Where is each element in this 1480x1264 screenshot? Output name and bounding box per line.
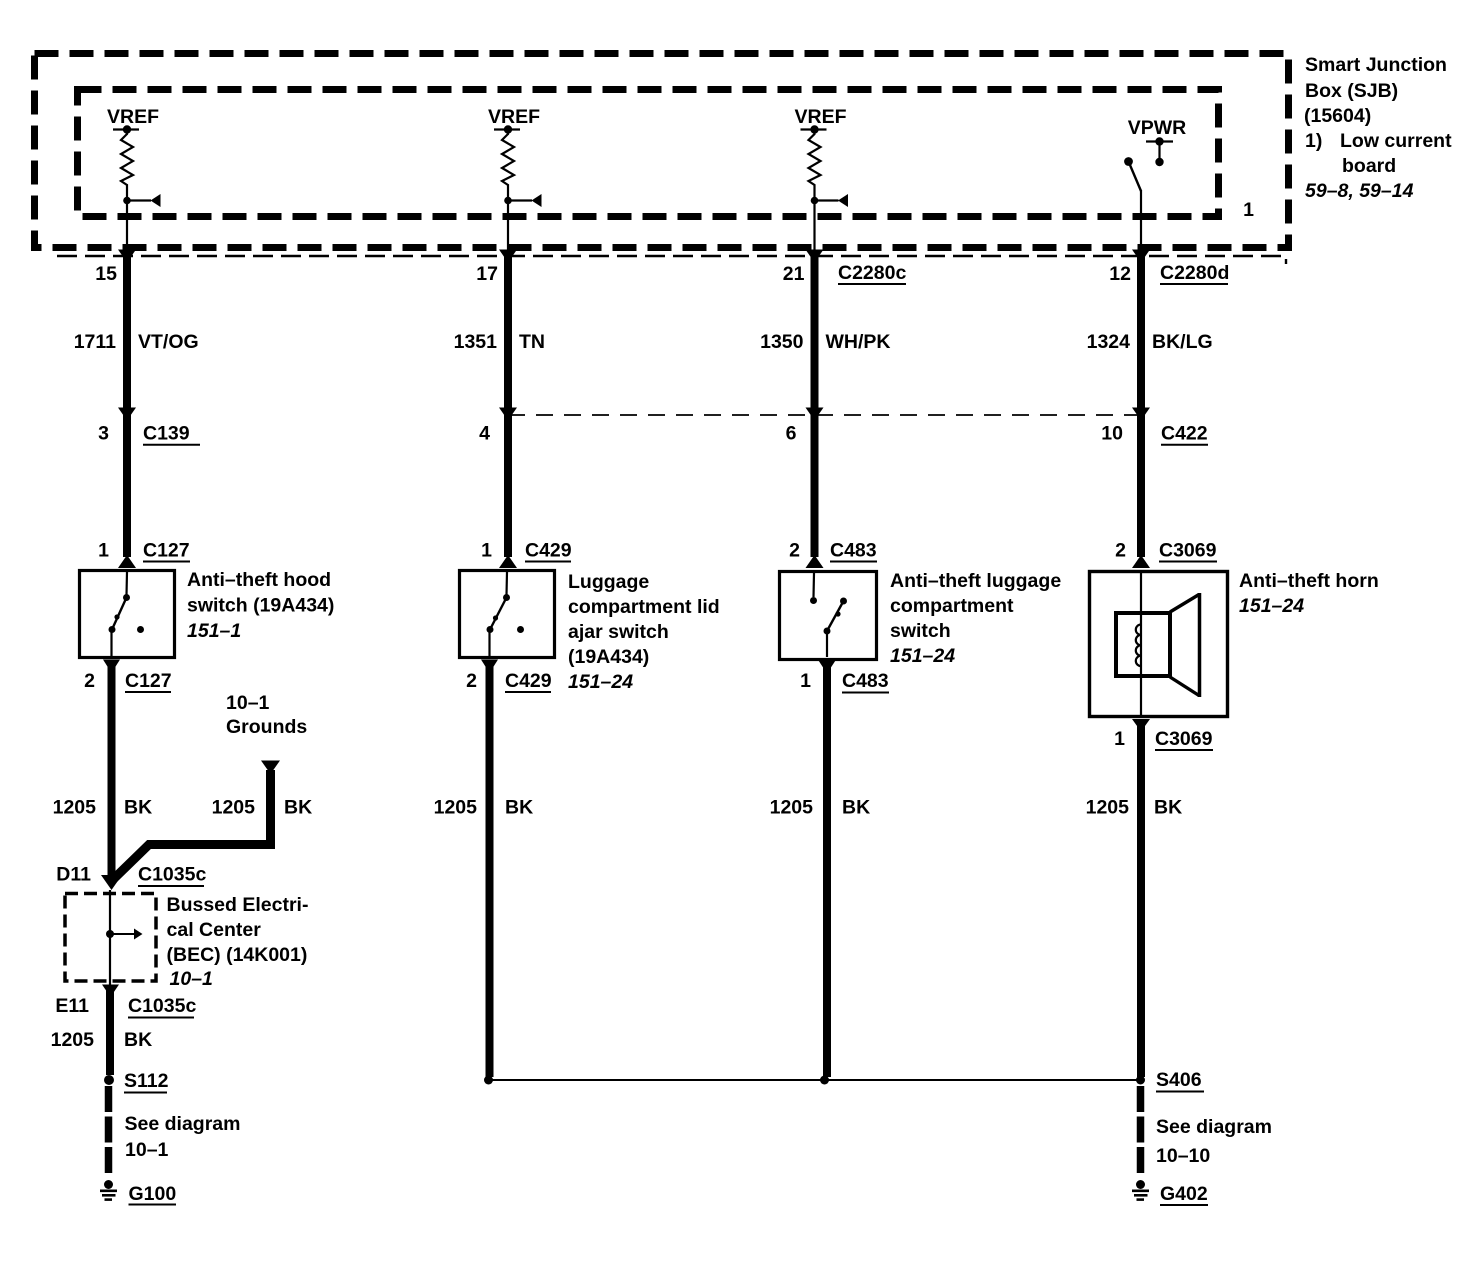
svg-text:C127: C127 (143, 540, 190, 562)
svg-text:E11: E11 (55, 995, 89, 1017)
wire SJB internal down col1 (126, 201, 128, 253)
svg-text:C1035c: C1035c (138, 864, 206, 886)
svg-text:(BEC) (14K001): (BEC) (14K001) (167, 944, 308, 966)
svg-text:C3069: C3069 (1155, 728, 1213, 750)
svg-text:10–1: 10–1 (125, 1139, 169, 1161)
junction arrow into connector row A x=508 (499, 250, 517, 263)
svg-text:BK: BK (842, 797, 870, 819)
svg-text:1): 1) (1305, 130, 1322, 152)
svg-text:151–1: 151–1 (187, 620, 241, 642)
svg-text:C3069: C3069 (1159, 540, 1217, 562)
svg-text:C429: C429 (505, 670, 552, 692)
anti-theft luggage compartment switch box (780, 572, 877, 660)
svg-text:1: 1 (1114, 728, 1125, 750)
junction arrow into connector row B x=508 (499, 408, 517, 421)
svg-text:BK: BK (284, 797, 312, 819)
inner dashed box: low current board (78, 90, 1219, 217)
wire hood switch to BEC 1205 BK (108, 663, 116, 879)
svg-text:1205: 1205 (1086, 797, 1130, 819)
ground feed stub triangle (261, 761, 280, 775)
connector line row C139/C422 (thin dashed) (508, 414, 1141, 416)
arrow into switch pin x=508 (499, 555, 517, 568)
horn cone (1170, 595, 1199, 613)
svg-text:1324: 1324 (1087, 331, 1131, 353)
arrow out of hood switch (103, 660, 120, 674)
svg-text:C429: C429 (525, 540, 572, 562)
svg-text:compartment lid: compartment lid (568, 596, 720, 618)
svg-text:2: 2 (789, 540, 800, 562)
wire SJB internal down col4 (1140, 190, 1142, 252)
horn coil (1136, 625, 1141, 667)
svg-text:BK: BK (1154, 797, 1182, 819)
svg-text:compartment: compartment (890, 595, 1014, 617)
svg-text:Box (SJB): Box (SJB) (1305, 80, 1398, 102)
wire through BEC (109, 890, 111, 986)
svg-text:C2280d: C2280d (1160, 262, 1229, 284)
svg-text:See diagram: See diagram (125, 1113, 241, 1135)
svg-text:Smart Junction: Smart Junction (1305, 54, 1447, 76)
svg-text:Anti–theft hood: Anti–theft hood (187, 569, 331, 591)
svg-text:15: 15 (95, 263, 117, 285)
svg-text:VREF: VREF (794, 106, 846, 128)
wire 1711 VT/OG upper (123, 256, 131, 410)
svg-text:10–1: 10–1 (170, 968, 213, 990)
splice S406 (1136, 1076, 1145, 1085)
svg-text:switch (19A434): switch (19A434) (187, 595, 334, 617)
svg-text:Anti–theft horn: Anti–theft horn (1239, 570, 1379, 592)
Bussed Electrical Center dashed box (65, 894, 156, 982)
svg-text:Luggage: Luggage (568, 571, 649, 593)
wire resistor to contact node col3 (813, 188, 815, 200)
svg-text:(15604): (15604) (1304, 105, 1371, 127)
switch contact arrow col1 (127, 199, 151, 201)
wire horn down 1205 BK (1137, 722, 1145, 1077)
svg-text:59–8, 59–14: 59–8, 59–14 (1305, 180, 1414, 202)
svg-text:C2280c: C2280c (838, 262, 906, 284)
svg-text:D11: D11 (56, 864, 91, 886)
svg-text:C422: C422 (1161, 423, 1208, 445)
arrow into switch pin x=1141 (1132, 555, 1150, 568)
svg-text:C127: C127 (125, 670, 172, 692)
svg-text:21: 21 (783, 263, 805, 285)
junction arrow D11 (101, 875, 122, 890)
svg-text:board: board (1342, 155, 1396, 177)
svg-text:C1035c: C1035c (128, 995, 196, 1017)
arrow into switch pin x=127 (118, 555, 136, 568)
hood switch internals (125, 572, 128, 595)
svg-text:2: 2 (466, 670, 477, 692)
svg-text:1205: 1205 (53, 797, 97, 819)
wire to switch x=508 (504, 414, 512, 557)
svg-text:WH/PK: WH/PK (826, 331, 891, 353)
wire 1324 BK/LG upper (1137, 256, 1145, 410)
anti-theft hood switch box (80, 571, 175, 658)
wire lid switch down 1205 BK (486, 663, 494, 1077)
svg-text:3: 3 (98, 423, 109, 445)
outer dashed box: Smart Junction Box (SJB) (35, 54, 1289, 248)
switch contact arrow col2 (508, 199, 532, 201)
svg-text:1205: 1205 (51, 1029, 95, 1051)
svg-text:BK: BK (124, 1029, 152, 1051)
wire SJB internal down col3 (813, 201, 815, 253)
svg-text:6: 6 (786, 423, 797, 445)
wire ground branch 1205 BK (112, 770, 271, 881)
junction dot col2 (484, 1076, 493, 1085)
anti-theft horn box (1090, 572, 1228, 717)
svg-text:BK/LG: BK/LG (1152, 331, 1213, 353)
resistor VREF pull-up col2 (502, 131, 514, 188)
svg-text:switch: switch (890, 620, 951, 642)
svg-text:(19A434): (19A434) (568, 646, 649, 668)
junction dot col3 (820, 1076, 829, 1085)
wire luggage switch down 1205 BK (823, 664, 831, 1077)
wire to switch x=1141 (1137, 414, 1145, 557)
resistor VREF pull-up col3 (809, 131, 821, 188)
svg-text:VPWR: VPWR (1128, 117, 1187, 139)
wire 1351 TN upper (504, 256, 512, 410)
svg-text:1: 1 (98, 540, 109, 562)
arrow into switch pin x=814.5 (806, 555, 824, 568)
wire VPWR stem (1158, 142, 1160, 162)
arrow out of horn (1132, 719, 1150, 732)
switch contact arrow col3 (815, 199, 839, 201)
svg-text:1: 1 (800, 670, 811, 692)
luggage switch internals (open) (812, 573, 815, 597)
wire to switch x=127 (123, 414, 131, 557)
svg-text:See diagram: See diagram (1156, 1116, 1272, 1138)
svg-text:VREF: VREF (107, 106, 159, 128)
horn speaker rect (1116, 613, 1170, 676)
arrow out of luggage switch (819, 661, 836, 674)
svg-text:2: 2 (1115, 540, 1126, 562)
svg-text:C483: C483 (830, 540, 877, 562)
svg-text:1205: 1205 (434, 797, 478, 819)
junction arrow into connector row A x=1141 (1132, 250, 1150, 263)
svg-text:2: 2 (84, 670, 95, 692)
svg-text:Low current: Low current (1340, 130, 1452, 152)
wire through horn (1140, 573, 1142, 715)
junction arrow into connector row B x=814.5 (806, 408, 824, 421)
open contact dot (137, 626, 144, 633)
wire resistor to contact node col2 (507, 188, 509, 200)
svg-text:C483: C483 (842, 670, 889, 692)
svg-text:1711: 1711 (74, 331, 116, 353)
wire to switch x=814.5 (811, 414, 819, 557)
wire SJB internal down col2 (507, 201, 509, 253)
svg-text:151–24: 151–24 (890, 645, 955, 667)
svg-text:C139: C139 (143, 423, 190, 445)
svg-text:10–1: 10–1 (226, 692, 270, 714)
arrow out of lid switch (481, 660, 498, 674)
svg-text:10: 10 (1101, 423, 1123, 445)
svg-text:S406: S406 (1156, 1069, 1202, 1091)
resistor VREF pull-up col1 (121, 131, 133, 188)
svg-text:BK: BK (124, 797, 152, 819)
svg-text:4: 4 (479, 423, 490, 445)
junction arrow into connector row B x=1141 (1132, 408, 1150, 421)
svg-text:1351: 1351 (454, 331, 498, 353)
connector line C2280 (thin dashed) (57, 256, 1286, 264)
svg-text:BK: BK (505, 797, 533, 819)
svg-text:cal Center: cal Center (167, 919, 262, 941)
junction arrow into connector row A x=814.5 (806, 250, 824, 263)
switch lever VPWR (open) (1124, 157, 1133, 166)
svg-text:151–24: 151–24 (568, 671, 633, 693)
svg-text:1205: 1205 (212, 797, 256, 819)
open contact dot (517, 626, 524, 633)
svg-text:1350: 1350 (760, 331, 804, 353)
svg-text:VT/OG: VT/OG (138, 331, 199, 353)
ground G100 (104, 1180, 113, 1189)
svg-text:151–24: 151–24 (1239, 595, 1304, 617)
splice S112 (104, 1075, 114, 1085)
wire bottom ground bus (489, 1079, 1141, 1081)
ground G402 (1136, 1180, 1145, 1189)
svg-text:S112: S112 (124, 1070, 169, 1092)
svg-text:G402: G402 (1160, 1183, 1208, 1205)
wire 1350 WH/PK upper (811, 256, 819, 410)
svg-text:10–10: 10–10 (1156, 1145, 1210, 1167)
svg-text:12: 12 (1109, 263, 1131, 285)
svg-text:ajar switch: ajar switch (568, 621, 669, 643)
arrow out of BEC (102, 985, 119, 998)
luggage compartment lid ajar switch box (460, 571, 555, 658)
svg-text:17: 17 (476, 263, 498, 285)
lid ajar switch internals (505, 572, 508, 595)
junction arrow into connector row B x=127 (118, 408, 136, 421)
svg-text:TN: TN (519, 331, 545, 353)
svg-text:VREF: VREF (488, 106, 540, 128)
svg-text:1: 1 (481, 540, 492, 562)
junction arrow into connector row A x=127 (118, 250, 136, 263)
BEC node dot and arrow (106, 930, 114, 938)
wire resistor to contact node col1 (126, 188, 128, 200)
dashed wire to G402 (1137, 1086, 1145, 1177)
svg-text:Grounds: Grounds (226, 716, 307, 738)
svg-text:1: 1 (1243, 199, 1254, 221)
wire BEC to S112 1205 BK (106, 988, 114, 1075)
svg-text:Bussed Electri-: Bussed Electri- (167, 894, 309, 916)
svg-text:Anti–theft luggage: Anti–theft luggage (890, 570, 1061, 592)
dashed wire to G100 (105, 1086, 113, 1177)
svg-text:1205: 1205 (770, 797, 814, 819)
svg-text:G100: G100 (129, 1183, 177, 1205)
